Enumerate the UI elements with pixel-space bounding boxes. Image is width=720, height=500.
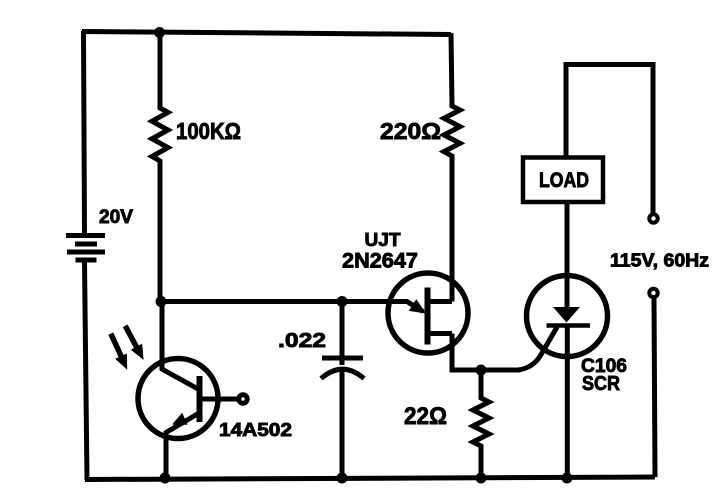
UJT emitter diagonal: [390, 302, 423, 312]
battery 20V: [66, 233, 105, 238]
resistor 22Ω with leads: [473, 370, 489, 478]
op-amp UJT U1 circle: [388, 273, 468, 353]
UJT base bar: [425, 288, 431, 345]
svg-text:.022: .022: [278, 329, 326, 352]
light arrow 2: [125, 326, 136, 347]
svg-text:220Ω: 220Ω: [380, 118, 441, 144]
UJT base-2 arm: [428, 299, 453, 304]
svg-text:20V: 20V: [99, 207, 133, 228]
phototransistor Q1 circle: [138, 359, 218, 439]
SCR anode lead: [565, 202, 570, 308]
junction Q1 emitter at bottom bus: [160, 473, 171, 484]
svg-text:UJT: UJT: [365, 229, 402, 250]
terminal bottom 115V: [649, 289, 657, 297]
SCR C106 circle: [527, 276, 608, 357]
resistor 220Ω with leads: [444, 33, 460, 302]
wire battery to bottom bus: [85, 262, 88, 480]
junction SCR cathode at bottom bus: [562, 473, 573, 484]
svg-text:SCR: SCR: [582, 373, 620, 395]
svg-text:2N2647: 2N2647: [342, 249, 418, 273]
capacitor C1 .022: [340, 302, 345, 366]
svg-text:100KΩ: 100KΩ: [176, 118, 241, 144]
phototransistor Q1 emitter lead: [166, 413, 200, 479]
terminal top 115V: [649, 214, 657, 222]
resistor 100KΩ: [152, 33, 168, 301]
SCR diode triangle: [553, 307, 580, 323]
svg-text:22Ω: 22Ω: [404, 403, 447, 430]
UJT emitter arrow: [409, 299, 426, 313]
wire left vertical battery branch: [84, 31, 85, 233]
SCR cathode bar: [547, 323, 591, 328]
svg-text:LOAD: LOAD: [539, 169, 589, 192]
light arrow 1: [111, 334, 122, 358]
wire bottom bus: [85, 477, 655, 480]
wire bottom terminal to bottom bus: [654, 299, 655, 478]
wire node A horizontal bus: [161, 299, 390, 304]
phototransistor Q1 base bar: [197, 376, 203, 422]
LOAD box: [523, 158, 603, 203]
junction top of 100K resistor: [154, 27, 165, 38]
junction capacitor bottom: [337, 473, 348, 484]
junction capacitor top: [337, 296, 348, 307]
SCR cathode lead: [565, 324, 570, 478]
SCR gate lead: [518, 327, 557, 370]
junction node A: [156, 296, 167, 307]
svg-text:14A502: 14A502: [219, 420, 292, 440]
junction 22Ω top: [476, 365, 487, 376]
phototransistor Q1 collector lead: [162, 299, 198, 389]
wire top bus: [82, 32, 451, 35]
svg-text:115V, 60Hz: 115V, 60Hz: [610, 251, 709, 271]
UJT base-1 arm: [428, 331, 453, 336]
junction 22Ω bottom: [476, 473, 487, 484]
wire LOAD top to AC terminal: [566, 65, 653, 214]
phototransistor Q1 base lead and open terminal: [200, 397, 238, 402]
wire UJT B1 to gate bus: [452, 334, 520, 371]
phototransistor Q1 emitter arrow: [172, 413, 188, 425]
